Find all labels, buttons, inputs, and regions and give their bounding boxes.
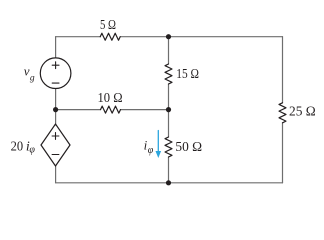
voltage source vg minus sign: [52, 82, 59, 84]
dependent source minus sign: [52, 154, 59, 156]
wire middle vertical bottom: [168, 157, 170, 183]
wire 5ohm to top right corner: [120, 36, 282, 38]
wire bottom rail: [56, 182, 283, 184]
svg-text:25 Ω: 25 Ω: [289, 105, 316, 120]
svg-text:v: v: [24, 64, 30, 79]
svg-text:φ: φ: [29, 144, 35, 155]
resistor R5 25ohm zigzag: [279, 103, 286, 123]
current arrow i_phi: [157, 131, 159, 153]
wire middle vertical between 15ohm and 50ohm: [168, 84, 170, 137]
node dot A left: [53, 107, 58, 112]
wire node A to 10ohm: [56, 109, 101, 111]
svg-text:g: g: [30, 73, 35, 83]
node dot bottom middle: [166, 180, 171, 185]
wire top left to 5ohm: [56, 36, 101, 38]
wire right vertical bottom: [282, 123, 284, 183]
resistor R2 15ohm zigzag: [165, 64, 172, 84]
wire node A to diamond top: [55, 110, 57, 124]
svg-text:15 Ω: 15 Ω: [176, 67, 199, 82]
wire circle bottom to node A: [55, 89, 57, 110]
svg-text:φ: φ: [148, 145, 154, 156]
wire left vertical top: [55, 37, 57, 58]
svg-text:5 Ω: 5 Ω: [100, 18, 116, 33]
resistor R1 5ohm zigzag: [100, 33, 120, 40]
wire diamond bottom to bottom rail: [55, 166, 57, 183]
resistor R3 10ohm zigzag: [101, 106, 121, 113]
wire middle vertical top: [168, 37, 170, 64]
wire right vertical top: [282, 37, 284, 103]
node dot top middle: [166, 34, 171, 39]
svg-text:10 Ω: 10 Ω: [98, 91, 123, 106]
node dot B middle: [166, 107, 171, 112]
svg-text:20: 20: [11, 140, 24, 155]
voltage source vg circle: [40, 58, 71, 89]
voltage source vg plus sign: [52, 62, 59, 69]
dependent source diamond: [41, 124, 70, 166]
current arrow head: [156, 151, 162, 158]
wire 10ohm to node B: [121, 109, 169, 111]
resistor R4 50ohm zigzag: [165, 137, 172, 157]
svg-text:50 Ω: 50 Ω: [175, 140, 202, 155]
dependent source plus sign: [52, 133, 59, 140]
